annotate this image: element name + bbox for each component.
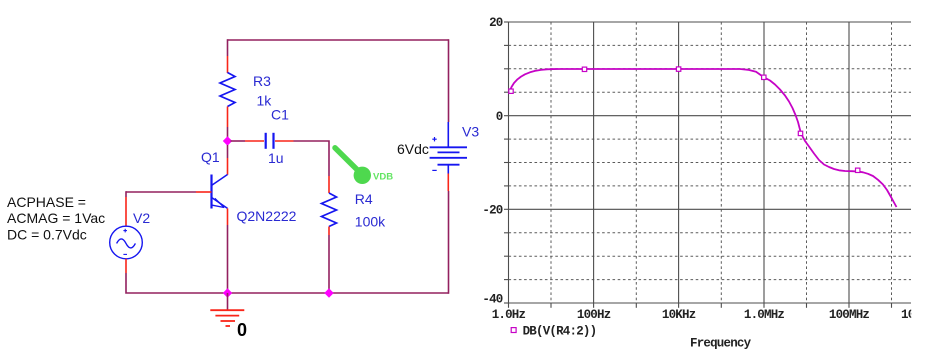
svg-text:Frequency: Frequency	[690, 336, 752, 350]
svg-text:1.0Hz: 1.0Hz	[492, 308, 526, 322]
pin Q1 emitter (red)	[227, 208, 229, 225]
svg-text:-40: -40	[482, 293, 502, 307]
svg-text:1u: 1u	[268, 150, 284, 166]
source V3 battery	[430, 122, 467, 174]
wire V2 to bottom rail	[126, 273, 449, 293]
axis ticks bottom	[509, 303, 892, 308]
pin R4 top (red)	[328, 176, 330, 193]
pin V2 plus (red)	[125, 197, 127, 227]
transistor Q1	[212, 175, 228, 209]
wire node A to C1	[231, 140, 246, 142]
wire node A down to collector	[227, 145, 229, 158]
pin C1 right (red)	[275, 140, 294, 142]
trace markers	[509, 67, 860, 173]
svg-text:100MHz: 100MHz	[829, 308, 870, 322]
pin R3 top (red)	[227, 56, 229, 73]
capacitor C1	[266, 133, 274, 149]
wire corner above V2	[125, 191, 127, 197]
pin R3 bottom (red)	[227, 107, 229, 128]
svg-text:-20: -20	[482, 204, 502, 218]
svg-text:0: 0	[237, 320, 247, 340]
wire top rail	[228, 39, 449, 41]
node A junction dot	[223, 136, 232, 145]
pin R4 bottom (red)	[328, 227, 330, 236]
svg-text:DC = 0.7Vdc: DC = 0.7Vdc	[7, 227, 87, 243]
svg-text:10KHz: 10KHz	[662, 308, 696, 322]
svg-text:V3: V3	[462, 123, 479, 139]
legend marker	[511, 328, 516, 333]
grid vertical dashed decade lines	[551, 22, 892, 303]
source V2	[110, 226, 143, 259]
grid horizontal major lines	[509, 22, 912, 303]
svg-text:R3: R3	[253, 73, 271, 89]
wire right rail down to V3	[448, 39, 450, 122]
grid horizontal minor dashed lines	[509, 45, 912, 279]
wire top-left drop to R3	[227, 39, 229, 56]
wire V3 to bottom rail	[448, 191, 450, 294]
resistor R3	[220, 73, 235, 107]
trace DB(V(R4:2))	[510, 69, 897, 207]
wire ground stub	[227, 293, 229, 310]
svg-text:C1: C1	[271, 107, 289, 123]
wire V2 to base	[126, 191, 196, 193]
svg-text:1k: 1k	[257, 92, 273, 108]
svg-text:Q2N2222: Q2N2222	[237, 208, 297, 224]
axis ticks left	[504, 22, 509, 303]
svg-text:V2: V2	[133, 210, 150, 226]
svg-text:ACPHASE =: ACPHASE =	[7, 194, 86, 210]
probe VDB marker	[335, 148, 371, 184]
resistor R4	[322, 193, 337, 227]
svg-text:ACMAG = 1Vac: ACMAG = 1Vac	[7, 210, 105, 226]
svg-text:R4: R4	[355, 191, 373, 207]
grid vertical solid decade lines	[509, 22, 850, 303]
pin Q1 collector (red)	[227, 158, 229, 175]
svg-text:Q1: Q1	[201, 149, 220, 165]
svg-text:1.0MHz: 1.0MHz	[744, 308, 785, 322]
svg-text:20: 20	[489, 16, 503, 30]
node R4 bottom junction dot	[324, 288, 333, 297]
pin C1 left (red)	[245, 140, 264, 142]
svg-text:0: 0	[496, 110, 503, 124]
svg-text:6Vdc: 6Vdc	[397, 141, 429, 157]
svg-text:100k: 100k	[355, 213, 386, 229]
svg-text:VDB: VDB	[373, 172, 393, 183]
svg-text:DB(V(R4:2)): DB(V(R4:2))	[523, 324, 597, 338]
pin V2 minus (red)	[125, 259, 127, 273]
wire emitter to bottom rail	[227, 225, 229, 293]
wire R4 to bottom rail	[328, 235, 330, 293]
wire C1 to node VDB corner	[294, 141, 330, 176]
wire R3 to node A	[227, 127, 229, 141]
pin Q1 base (red)	[196, 191, 212, 193]
svg-text:100Hz: 100Hz	[577, 308, 611, 322]
ground 0	[210, 310, 244, 326]
pin V3 minus (red)	[447, 174, 449, 192]
svg-text:10GHz: 10GHz	[901, 308, 935, 322]
node GND junction dot	[223, 288, 232, 297]
